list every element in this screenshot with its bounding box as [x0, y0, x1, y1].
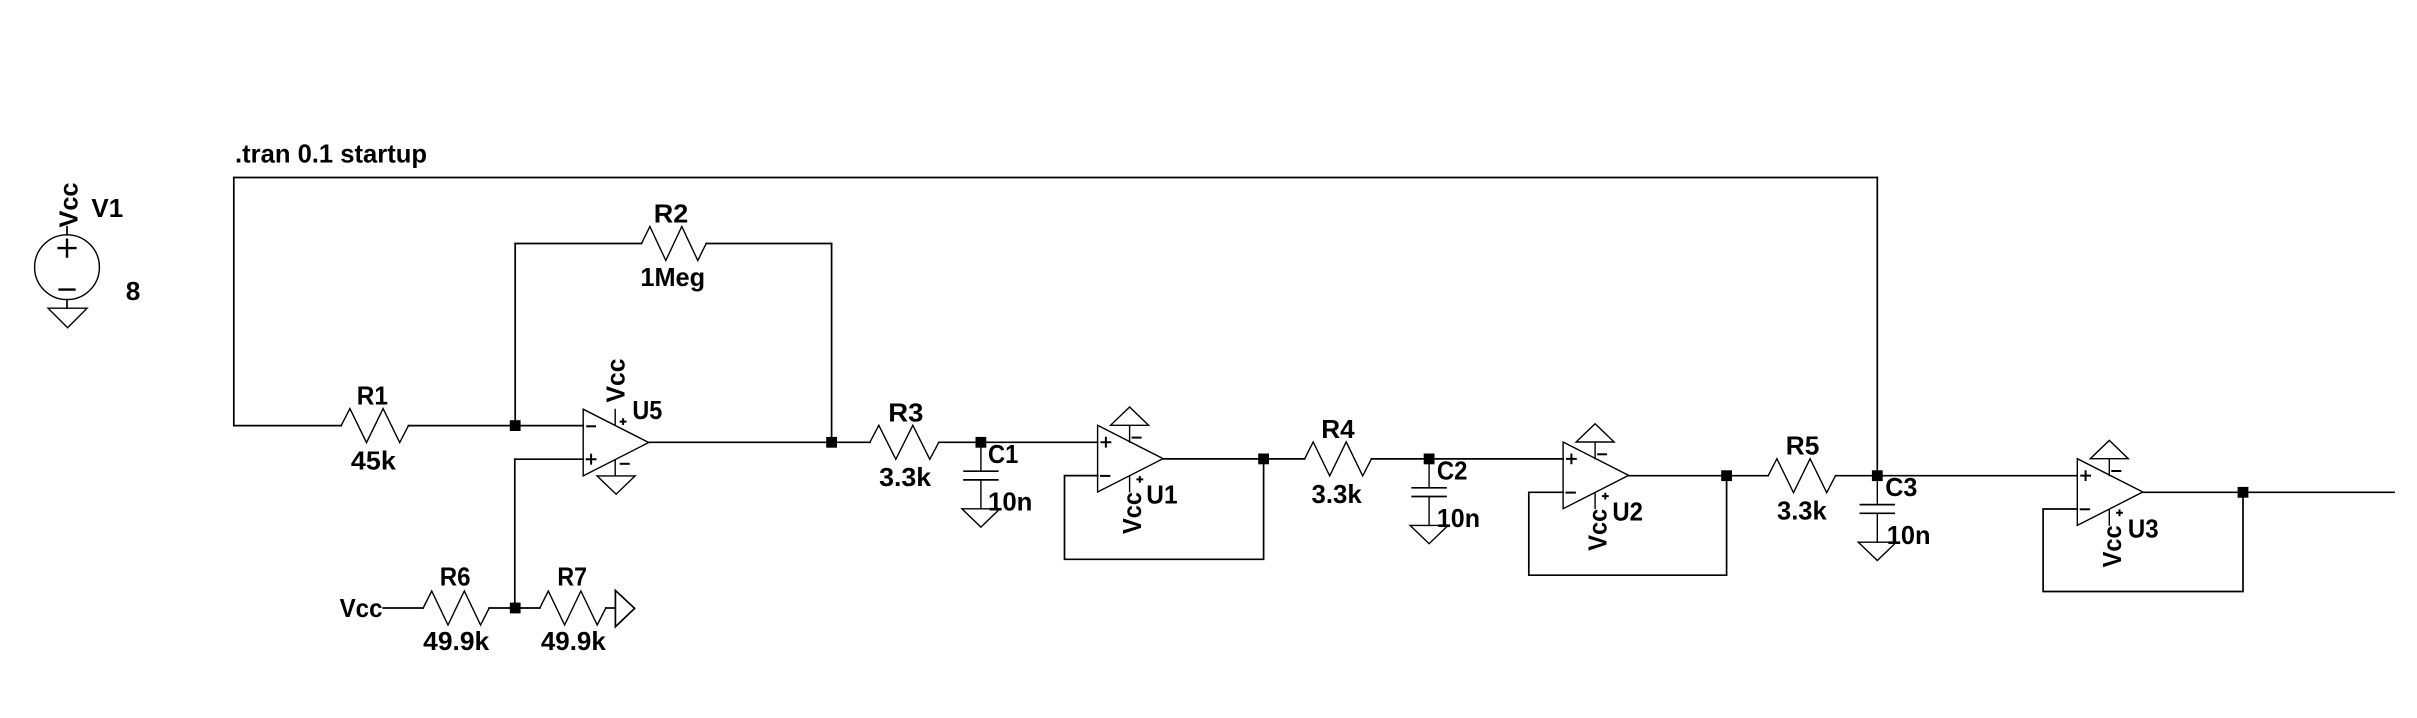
svg-text:10n: 10n	[1887, 520, 1931, 550]
op-amp U5	[583, 409, 649, 476]
value 10n (C1)	[988, 486, 1032, 516]
net label Vcc (U3 supply, rotated)	[2097, 525, 2127, 567]
wire U2 output	[1629, 475, 1769, 477]
resistor R6	[423, 591, 489, 625]
wire Vcc to R6	[383, 607, 423, 609]
svg-text:10n: 10n	[1437, 503, 1480, 533]
wire U2 feedback	[1529, 476, 1727, 576]
resistor R5	[1768, 459, 1835, 493]
svg-text:49.9k: 49.9k	[423, 626, 490, 656]
node C3 junction	[1872, 470, 1883, 481]
op-amp U1	[1098, 425, 1164, 492]
label U2	[1612, 496, 1643, 526]
svg-text:U5: U5	[632, 395, 662, 425]
value 45k	[351, 446, 396, 476]
svg-text:V1: V1	[91, 193, 123, 223]
resistor R4	[1305, 442, 1372, 476]
capacitor C1	[964, 442, 998, 509]
wire R2 left	[515, 243, 641, 245]
label U1	[1146, 479, 1177, 509]
wire R7 to port	[606, 607, 616, 609]
net label Vcc (U2 supply, rotated)	[1583, 509, 1613, 551]
label R1	[357, 380, 388, 410]
ground (below C1)	[962, 509, 1000, 527]
label R7	[557, 561, 587, 591]
ground (U1 negative supply, flipped)	[1111, 407, 1149, 425]
label R2	[654, 198, 689, 228]
wire R2 left vertical	[514, 244, 516, 426]
wire R3 to U1	[939, 441, 1098, 443]
resistor R3	[870, 425, 939, 459]
value 3.3k (R4)	[1312, 479, 1363, 509]
ground (U5 negative supply)	[597, 476, 635, 494]
voltage source V1 body	[35, 227, 100, 309]
value 49.9k (R6)	[423, 626, 490, 656]
wire U5 output	[649, 441, 870, 443]
svg-text:R3: R3	[888, 397, 923, 427]
label C1	[988, 439, 1018, 469]
svg-text:3.3k: 3.3k	[879, 462, 932, 492]
node R6/R7 divider junction	[510, 603, 521, 614]
resistor R1	[341, 409, 408, 443]
net label Vcc (V1 top, rotated)	[54, 183, 84, 228]
value 10n (C3)	[1887, 520, 1931, 550]
svg-text:C3: C3	[1885, 472, 1917, 502]
wire top horizontal (feedback loop)	[234, 177, 1878, 179]
svg-text:Vcc: Vcc	[2097, 525, 2127, 567]
label R4	[1321, 414, 1355, 444]
wire U5 noninverting input	[515, 458, 583, 460]
node C2 junction	[1424, 454, 1435, 465]
port flag (right of R7)	[615, 590, 634, 626]
label C3	[1885, 472, 1917, 502]
svg-text:10n: 10n	[988, 486, 1032, 516]
ground (U3 negative supply, flipped)	[2090, 440, 2128, 458]
svg-text:U2: U2	[1612, 496, 1643, 526]
label R3	[888, 397, 923, 427]
value 49.9k (R7)	[541, 626, 606, 656]
op-amp U3	[2077, 459, 2143, 526]
svg-text:8: 8	[126, 276, 141, 306]
value 8	[126, 276, 141, 306]
svg-text:3.3k: 3.3k	[1777, 496, 1827, 526]
node U3 output junction	[2238, 487, 2249, 498]
svg-text:R4: R4	[1321, 414, 1355, 444]
resistor R7	[540, 591, 606, 625]
svg-text:R7: R7	[557, 561, 587, 591]
svg-text:45k: 45k	[351, 446, 396, 476]
wire U3 output	[2143, 491, 2394, 493]
svg-text:C1: C1	[988, 439, 1018, 469]
op-amp U2	[1563, 442, 1629, 509]
svg-text:Vcc: Vcc	[1583, 509, 1613, 551]
ground (below C2)	[1410, 525, 1448, 543]
svg-text:49.9k: 49.9k	[541, 626, 606, 656]
svg-text:R2: R2	[654, 198, 689, 228]
net label Vcc (U1 supply, rotated)	[1117, 492, 1147, 534]
label R5	[1786, 430, 1820, 460]
label U5	[632, 395, 662, 425]
value 10n (C2)	[1437, 503, 1480, 533]
wire U1 feedback	[1065, 459, 1264, 559]
svg-text:Vcc: Vcc	[601, 359, 631, 403]
wire R5 to U3	[1836, 475, 2078, 477]
svg-text:R6: R6	[440, 561, 471, 591]
node R1/R2/U5- junction	[510, 420, 521, 431]
resistor R2	[642, 227, 707, 261]
wire loop to R1	[234, 425, 341, 427]
wire R6 to R7	[489, 607, 540, 609]
label V1	[91, 193, 123, 223]
wire R4 to U2	[1371, 458, 1563, 460]
wire R2 right	[706, 243, 831, 245]
svg-text:Vcc: Vcc	[1117, 492, 1147, 534]
svg-text:Vcc: Vcc	[54, 183, 84, 228]
svg-text:C2: C2	[1437, 455, 1468, 485]
svg-text:3.3k: 3.3k	[1312, 479, 1363, 509]
net label Vcc (U5 supply, rotated)	[601, 359, 631, 403]
wire right vertical (feedback loop to C3)	[1876, 178, 1878, 476]
label U3	[2128, 513, 2159, 543]
wire left vertical (feedback loop)	[233, 178, 235, 426]
wire R1 to U5 inverting input	[409, 425, 584, 427]
spice directive .tran	[235, 139, 427, 169]
wire U1 output	[1163, 458, 1305, 460]
node C1 junction	[976, 437, 987, 448]
value 3.3k (R3)	[879, 462, 932, 492]
capacitor C3	[1860, 476, 1894, 543]
svg-text:.tran 0.1 startup: .tran 0.1 startup	[235, 139, 427, 169]
svg-text:U1: U1	[1146, 479, 1177, 509]
value 3.3k (R5)	[1777, 496, 1827, 526]
svg-text:U3: U3	[2128, 513, 2159, 543]
net label Vcc (divider)	[340, 593, 383, 623]
node U1 output junction	[1258, 454, 1269, 465]
label R6	[440, 561, 471, 591]
label C2	[1437, 455, 1468, 485]
svg-text:Vcc: Vcc	[340, 593, 383, 623]
wire U3 feedback	[2043, 492, 2243, 591]
svg-text:1Meg: 1Meg	[640, 262, 705, 292]
ground (below V1)	[48, 308, 87, 328]
node U5 output / R2 junction	[826, 437, 837, 448]
ground (below C3)	[1858, 542, 1896, 560]
svg-text:R5: R5	[1786, 430, 1820, 460]
wire R2 right vertical to U5 output	[831, 244, 833, 443]
svg-text:R1: R1	[357, 380, 388, 410]
capacitor C2	[1412, 459, 1446, 526]
ground (U2 negative supply, flipped)	[1576, 424, 1614, 442]
node U2 output junction	[1721, 470, 1732, 481]
wire U5 input to divider	[514, 459, 516, 608]
value 1Meg	[640, 262, 705, 292]
